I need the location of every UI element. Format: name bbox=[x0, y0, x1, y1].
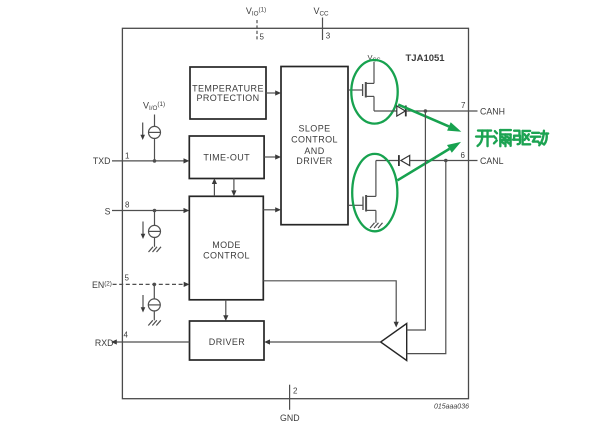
svg-text:TJA1051: TJA1051 bbox=[406, 53, 446, 64]
svg-text:AND: AND bbox=[304, 146, 324, 156]
wire CANL line from Q2 drain to diode D2 bbox=[376, 160, 399, 162]
transistor Q2 (low-side MOSFET) bbox=[348, 161, 376, 223]
wire TXD into TIME-OUT with arrow bbox=[112, 158, 189, 163]
current source I1 (TXD pull-up) bbox=[140, 115, 160, 161]
svg-text:S: S bbox=[105, 207, 111, 217]
block TEMPERATURE PROTECTION bbox=[190, 67, 266, 119]
wire MODE CONTROL to DRIVER down arrow bbox=[223, 300, 228, 321]
svg-text:CONTROL: CONTROL bbox=[203, 251, 250, 261]
wire D1 to CANH pin 7 bbox=[407, 110, 478, 112]
svg-text:MODE: MODE bbox=[212, 240, 241, 250]
char 漏 bbox=[494, 130, 511, 146]
wire receiver output to DRIVER with left arrow bbox=[264, 339, 380, 344]
wire CANH feedback to receiver bbox=[407, 111, 426, 330]
wire Q1 to diode D1 bbox=[374, 110, 397, 112]
svg-text:4: 4 bbox=[124, 331, 129, 340]
svg-text:TXD: TXD bbox=[93, 156, 111, 166]
node EN current-source junction bbox=[153, 283, 157, 287]
svg-text:DRIVER: DRIVER bbox=[296, 156, 333, 166]
ground (below I2) bbox=[149, 247, 162, 252]
char 驱 bbox=[513, 131, 530, 145]
char 开 bbox=[476, 131, 493, 147]
svg-text:RXD: RXD bbox=[95, 338, 114, 348]
annotation text 开漏驱动 (hand-drawn glyphs) bbox=[476, 130, 548, 146]
wire S into MODE CONTROL with arrow bbox=[112, 208, 189, 213]
node S current-source junction bbox=[153, 209, 157, 213]
svg-text:SLOPE: SLOPE bbox=[298, 123, 330, 133]
transistor Q1 (high-side MOSFET) bbox=[348, 62, 374, 111]
green ellipse around Q2 bbox=[352, 154, 397, 231]
ground (Q2 source) bbox=[370, 223, 383, 228]
wire TEMPERATURE PROTECTION to SLOPE with arrow bbox=[266, 90, 281, 95]
wire MODE CONTROL to receiver with down arrow bbox=[263, 281, 399, 328]
svg-text:CONTROL: CONTROL bbox=[291, 135, 338, 145]
svg-text:PROTECTION: PROTECTION bbox=[196, 93, 259, 103]
wire D2 to CANL pin 6 bbox=[410, 160, 478, 162]
svg-text:GND: GND bbox=[280, 413, 300, 423]
svg-text:6: 6 bbox=[461, 151, 466, 160]
IC boundary box TJA1051 bbox=[122, 28, 468, 398]
svg-text:TIME-OUT: TIME-OUT bbox=[203, 152, 250, 162]
pin 2 GND wire bbox=[289, 385, 291, 410]
svg-text:015aaa036: 015aaa036 bbox=[434, 403, 469, 410]
svg-text:5: 5 bbox=[125, 274, 130, 283]
svg-text:2: 2 bbox=[293, 387, 298, 396]
block SLOPE CONTROL AND DRIVER bbox=[281, 67, 348, 225]
receiver comparator U1 bbox=[381, 324, 407, 361]
svg-text:5: 5 bbox=[260, 33, 265, 42]
wire EN dashed into MODE CONTROL with arrow bbox=[113, 282, 190, 287]
current source I2 (S pull-down) bbox=[141, 211, 161, 247]
diode D2 bbox=[399, 155, 410, 166]
pin 3 VCC top label bbox=[313, 6, 329, 18]
svg-text:3: 3 bbox=[326, 32, 331, 41]
current source I3 (EN pull-down) bbox=[141, 284, 161, 320]
diode D1 bbox=[397, 106, 406, 117]
wire MODE CONTROL to TIME-OUT up arrow bbox=[212, 178, 217, 196]
block DRIVER bbox=[190, 321, 265, 360]
pin 5 VIO stub wire (dashed) bbox=[256, 20, 258, 40]
wire DRIVER to RXD with left arrow bbox=[111, 339, 190, 344]
wire TIME-OUT to SLOPE with arrow bbox=[264, 154, 281, 159]
ground (below I3) bbox=[148, 320, 161, 325]
svg-text:DRIVER: DRIVER bbox=[209, 337, 246, 347]
green ellipse around Q1 bbox=[351, 60, 397, 124]
svg-text:TEMPERATURE: TEMPERATURE bbox=[192, 83, 264, 93]
node TXD current-source junction bbox=[153, 159, 157, 163]
svg-text:8: 8 bbox=[125, 201, 130, 210]
node CANL feedback junction bbox=[444, 159, 448, 163]
block TIME-OUT bbox=[189, 136, 264, 179]
wire CANL feedback to receiver bbox=[407, 161, 446, 354]
svg-text:1: 1 bbox=[125, 151, 130, 160]
svg-text:CANL: CANL bbox=[480, 156, 504, 166]
node CANH feedback junction bbox=[424, 109, 428, 113]
green arrow 1 (from Q1 ellipse to text) bbox=[398, 105, 461, 132]
pin 5 VIO top label bbox=[246, 6, 266, 18]
svg-text:7: 7 bbox=[461, 101, 466, 110]
green arrow 2 (from Q2 ellipse to text) bbox=[398, 142, 462, 180]
char 动 bbox=[531, 131, 548, 146]
wire MODE CONTROL to SLOPE with arrow bbox=[263, 207, 281, 212]
pin 3 VCC stub wire bbox=[322, 18, 324, 41]
wire TIME-OUT to MODE CONTROL down arrow bbox=[231, 178, 236, 196]
block MODE CONTROL bbox=[189, 196, 263, 299]
svg-text:CANH: CANH bbox=[480, 107, 505, 117]
